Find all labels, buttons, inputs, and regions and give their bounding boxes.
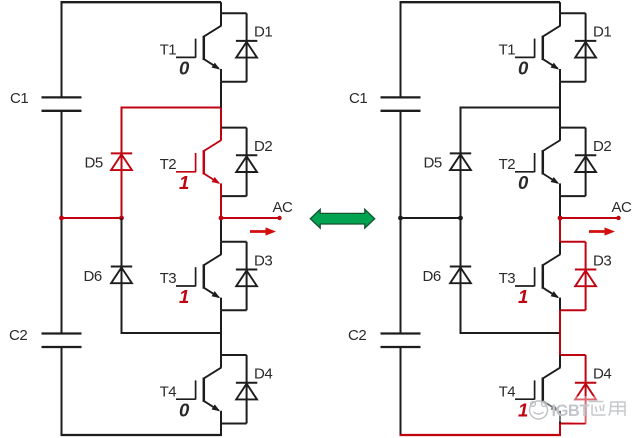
svg-text:D6: D6 [84,268,102,285]
diode D1 [236,40,257,42]
wire left main segment 1 [220,2,222,13]
capacitor C2 left [42,332,82,334]
svg-text:0: 0 [179,58,190,79]
svg-text:T1: T1 [499,42,516,59]
wire left DC rail upper [61,2,63,97]
svg-text:1: 1 [518,286,528,307]
node left neutral clamp junction [119,216,124,221]
svg-text:D3: D3 [254,252,272,269]
diode D1 [575,40,596,42]
diode D4 [575,382,596,384]
wire D2 branch [246,128,248,197]
transistor T2 [515,128,560,197]
wire left bottom rail [61,434,223,436]
wire left DC rail middle [61,111,63,334]
transistor T1 [176,13,221,82]
svg-text:D2: D2 [254,138,272,155]
node left AC junction [219,216,224,221]
wire left clamp upper horizontal [121,107,222,109]
diode D2 [575,154,596,156]
wire left main segment 7 [220,424,222,436]
wire T3 top branch [560,241,586,243]
diode D3 [575,269,596,271]
wire left main segment 6 [220,310,222,355]
svg-text:D1: D1 [254,24,272,41]
transistor T4 [515,355,560,424]
wire T2 bottom branch [560,195,586,197]
diode D4 [236,382,257,384]
svg-text:T2: T2 [160,156,177,173]
svg-text:C2: C2 [348,327,366,344]
svg-text:0: 0 [179,399,190,420]
wire T1 top branch [221,12,247,14]
wire right clamp upper vertical [460,107,462,219]
transistor T1 [515,13,560,82]
right NPC inverter circuit [348,2,632,435]
svg-text:C1: C1 [349,90,367,107]
wire T4 bottom branch [560,423,586,425]
wire left clamp lower vertical [121,218,123,334]
wire T2 bottom branch [221,195,247,197]
wire T3 bottom branch [221,309,247,311]
svg-text:D5: D5 [85,155,103,172]
transistor T3 [515,242,560,310]
node right neutral rail junction [398,216,403,221]
wire right clamp upper horizontal [460,107,561,109]
diode D6 right [450,266,471,268]
wire left main segment 3 [220,108,222,128]
wire D2 branch [585,128,587,197]
svg-text:D4: D4 [254,366,272,383]
svg-text:D2: D2 [593,138,611,155]
wire right main segment 2 [559,82,561,128]
svg-text:AC: AC [612,199,633,216]
svg-text:T3: T3 [160,270,177,287]
svg-text:T4: T4 [499,383,516,400]
diode D5 left [111,152,132,154]
svg-text:IGBT: IGBT [552,402,590,420]
svg-text:1: 1 [179,286,189,307]
wire T1 top branch [560,12,586,14]
wire right main segment 1 [559,2,561,13]
svg-text:1: 1 [179,172,189,193]
svg-text:T1: T1 [160,42,177,59]
wire right clamp lower vertical [460,218,462,334]
wire left DC rail lower [61,347,63,435]
wire T2 top branch [560,127,586,129]
current arrow right [589,227,615,235]
wire left main segment 5 [220,218,222,242]
transistor T3 [176,242,221,310]
svg-text:D4: D4 [593,366,611,383]
wire left neutral [62,217,122,219]
wire T3 bottom branch [560,309,586,311]
svg-text:T4: T4 [160,383,177,400]
capacitor C1 right [381,96,421,98]
wire T4 bottom branch [221,423,247,425]
wire right top rail [400,1,561,3]
wire T1 bottom branch [560,81,586,83]
node left AC terminal [277,216,281,220]
svg-text:0: 0 [518,172,529,193]
left NPC inverter circuit [9,2,293,435]
wire right main segment 4 [559,218,561,242]
svg-text:D3: D3 [593,252,611,269]
svg-text:D5: D5 [424,155,442,172]
wire T2 top branch [221,127,247,129]
green equivalence arrow [310,209,374,228]
wire left AC output [221,217,280,219]
wire left main segment 4 [220,196,222,218]
wire right AC output [560,217,619,219]
wire T1 bottom branch [221,81,247,83]
svg-text:0: 0 [518,58,529,79]
wire D4 branch [585,355,587,424]
watermark IGBT logo and text [529,396,639,423]
capacitor C2 right [381,332,421,334]
wire right main segment 6 [559,424,561,436]
transistor T4 [176,355,221,424]
wire left main segment 2 [220,82,222,108]
svg-text:C2: C2 [9,327,27,344]
transistor T2 [176,128,221,197]
wire right neutral [401,217,461,219]
capacitor C1 left [42,96,82,98]
wire left clamp upper vertical [121,107,123,219]
wire right bottom rail [400,434,562,436]
svg-text:T2: T2 [499,156,516,173]
svg-text:AC: AC [273,199,294,216]
svg-text:D1: D1 [593,24,611,41]
diode D5 right [450,152,471,154]
wire T4 top branch [560,354,586,356]
diode D3 [236,269,257,271]
wire D3 branch [246,242,248,310]
wire right clamp lower horizontal [460,332,561,334]
wire D4 branch [246,355,248,424]
node left neutral rail junction [59,216,64,221]
wire left top rail [61,1,222,3]
wire left clamp lower horizontal [121,332,222,334]
svg-text:1: 1 [518,399,528,420]
wire D1 branch [585,13,587,82]
current arrow left [250,227,276,235]
diode D6 left [111,266,132,268]
wire D3 branch [585,242,587,310]
wire right DC rail lower [400,347,402,435]
diode D2 [236,154,257,156]
svg-text:D6: D6 [423,268,441,285]
wire right main segment 5 [559,310,561,355]
node right neutral clamp junction [458,216,463,221]
wire right DC rail middle [400,111,402,334]
svg-text:C1: C1 [10,90,28,107]
svg-text:T3: T3 [499,270,516,287]
wire D1 branch [246,13,248,82]
wire right main segment 3 [559,196,561,218]
wire T4 top branch [221,354,247,356]
node right AC terminal [616,216,620,220]
node right AC junction [558,216,563,221]
wire T3 top branch [221,241,247,243]
wire right DC rail upper [400,2,402,97]
